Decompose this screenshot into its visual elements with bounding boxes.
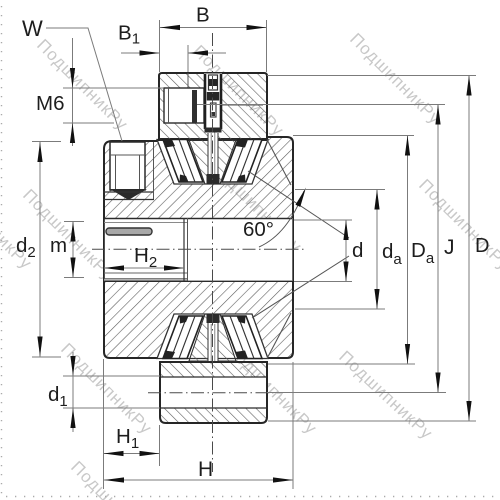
bore band (threaded bore) <box>104 218 292 281</box>
dim H <box>292 362 294 489</box>
horizontal centerline <box>92 248 306 250</box>
svg-text:60°: 60° <box>243 218 274 241</box>
svg-text:W: W <box>22 16 43 41</box>
dim B <box>159 20 161 72</box>
dim H2 <box>104 267 184 269</box>
roller upper-left <box>163 140 203 183</box>
svg-text:B: B <box>196 4 210 27</box>
leader W <box>46 28 122 141</box>
channel into ridge <box>208 133 218 184</box>
dim D <box>267 75 476 77</box>
dim d <box>294 219 352 221</box>
svg-text:M6: M6 <box>36 92 64 115</box>
washer bore centerline <box>148 392 283 394</box>
roller upper-right <box>222 140 262 183</box>
dim d2 <box>39 142 41 357</box>
nut ridge wedge between upper rollers <box>189 140 236 184</box>
dim H1 <box>103 359 105 489</box>
svg-text:d: d <box>352 239 363 262</box>
dim m <box>72 222 74 278</box>
vertical centerline <box>212 33 214 472</box>
dim B1 <box>187 45 189 72</box>
dim M6 <box>72 38 74 146</box>
screw cone tip <box>110 189 147 200</box>
dim Da <box>293 135 414 137</box>
slot bar in window <box>106 228 152 235</box>
outer ring body <box>104 137 293 358</box>
svg-text:m: m <box>50 234 67 257</box>
H2 window verticals <box>184 218 188 281</box>
svg-text:H: H <box>198 458 213 481</box>
arrowheads <box>37 25 471 483</box>
set screw boss recess (left, part of body) <box>103 142 154 200</box>
nut internal line <box>197 104 263 106</box>
washer ridge wedge between lower rollers <box>189 314 236 361</box>
dim d1 <box>72 352 74 432</box>
lower roller pocket <box>157 314 268 359</box>
roller lower-right <box>222 316 262 359</box>
nut recess (set screw socket) <box>164 88 204 123</box>
dim J <box>197 104 445 106</box>
dim da <box>295 189 385 191</box>
svg-text:J: J <box>444 236 455 259</box>
pin / screw channel through nut <box>204 74 222 185</box>
roller lower-left <box>163 316 203 359</box>
upper roller pocket <box>157 140 268 185</box>
svg-text:D: D <box>475 235 489 257</box>
